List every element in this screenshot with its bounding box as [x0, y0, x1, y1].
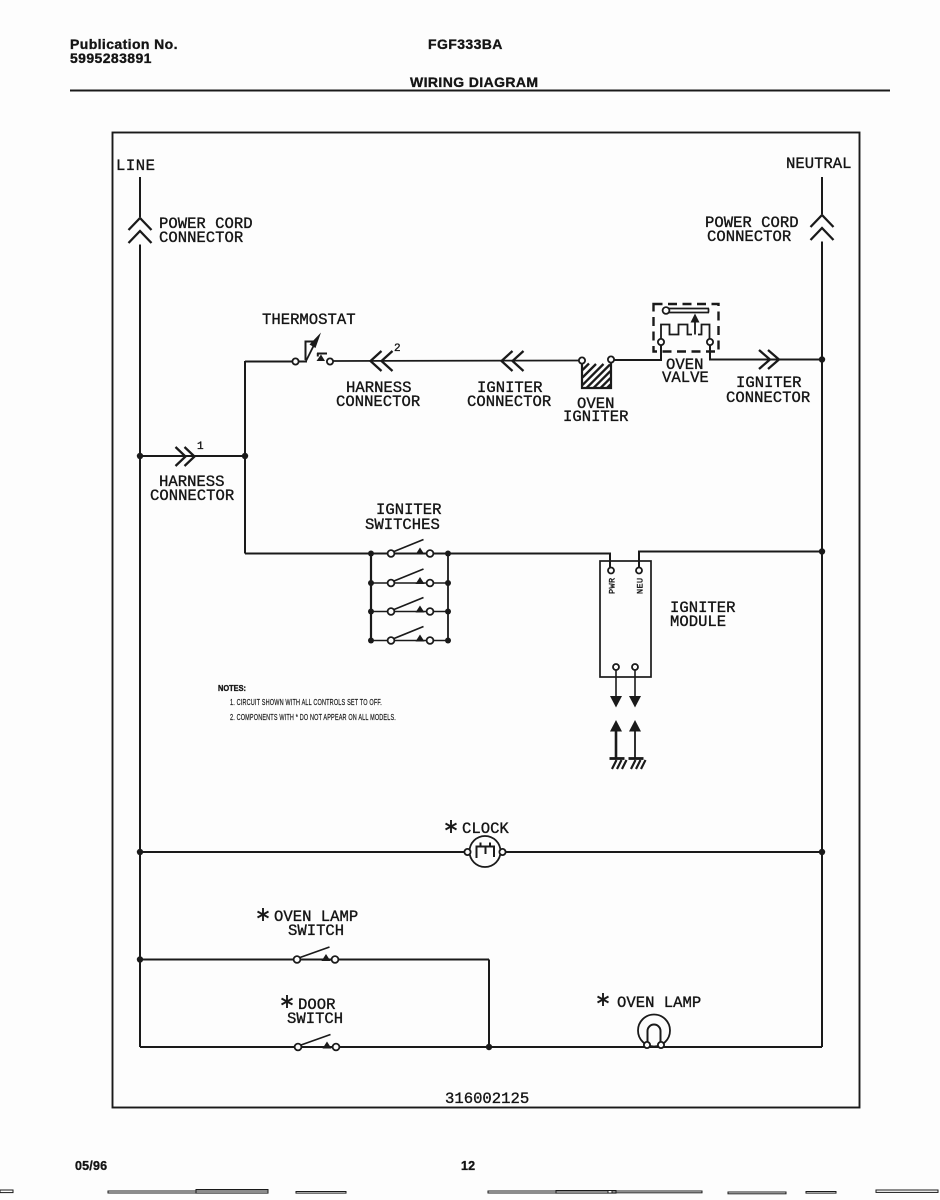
burner ground left — [610, 759, 627, 770]
wire: NEUTRAL drop to connector — [821, 177, 823, 214]
asterisk for oven lamp switch — [258, 908, 269, 921]
svg-text:NOTES:: NOTES: — [218, 684, 246, 693]
spark terminal arrow down left — [610, 696, 622, 708]
oven lamp switch SW5 — [294, 947, 339, 963]
power cord connector (left) — [129, 218, 152, 243]
label: igniter connector right — [726, 374, 810, 407]
spark terminal arrow down right — [629, 696, 641, 708]
svg-text:LINE: LINE — [116, 157, 155, 175]
junction: neutral rail / valve wire — [819, 356, 825, 362]
igniter switch SW3 — [388, 598, 434, 615]
svg-text:NEU: NEU — [636, 577, 646, 594]
svg-text:CONNECTOR: CONNECTOR — [707, 228, 791, 246]
junction: neutral rail / clock wire — [819, 849, 825, 855]
wire: switch row 2 — [371, 582, 448, 584]
wire: switch row 4 — [371, 640, 448, 642]
asterisk for clock — [446, 820, 457, 833]
clock motor M1 — [464, 836, 505, 867]
spark electrode arrow up left — [610, 720, 622, 732]
label: power cord connector right — [705, 214, 799, 246]
junctions: switch rails — [368, 551, 451, 644]
svg-text:MODULE: MODULE — [670, 613, 726, 631]
svg-text:IGNITER: IGNITER — [563, 408, 629, 426]
svg-text:THERMOSTAT: THERMOSTAT — [262, 311, 356, 329]
svg-text:1. CIRCUIT SHOWN WITH ALL CONT: 1. CIRCUIT SHOWN WITH ALL CONTROLS SET T… — [230, 697, 382, 707]
svg-text:CONNECTOR: CONNECTOR — [159, 229, 243, 247]
junction: line rail / lamp switch wire — [137, 956, 143, 962]
igniter switch SW1 — [388, 540, 434, 557]
oven lamp LP1 — [638, 1015, 670, 1049]
svg-text:SWITCH: SWITCH — [287, 1010, 343, 1028]
junction: branch node at x245 — [242, 453, 248, 459]
label: igniter module — [670, 599, 736, 631]
svg-text:12: 12 — [461, 1159, 475, 1173]
wire: oven valve to igniter connector right — [710, 345, 822, 360]
wire: main run to igniter module PWR — [245, 554, 610, 568]
svg-text:NEUTRAL: NEUTRAL — [786, 155, 852, 173]
thermostat TH1 — [292, 333, 333, 365]
svg-text:CONNECTOR: CONNECTOR — [336, 393, 420, 411]
svg-text:WIRING DIAGRAM: WIRING DIAGRAM — [410, 74, 538, 90]
svg-text:CONNECTOR: CONNECTOR — [150, 487, 234, 505]
spark electrode arrow up right — [629, 720, 641, 732]
wire: igniter to oven valve — [614, 345, 661, 360]
igniter connector symbol (left) — [502, 351, 524, 371]
wire: igniter switch right rail — [447, 554, 449, 641]
wire: electrode stem right — [634, 731, 636, 758]
svg-text:OVEN LAMP: OVEN LAMP — [617, 994, 701, 1012]
asterisk for door switch — [282, 995, 293, 1008]
igniter module U1 — [600, 561, 651, 677]
label: harness connector 2 — [336, 379, 420, 411]
svg-text:CONNECTOR: CONNECTOR — [467, 393, 551, 411]
asterisk for oven lamp — [598, 993, 609, 1006]
igniter switch SW2 — [388, 569, 434, 586]
junction: neutral rail / module wire — [819, 548, 825, 554]
wire: clock line — [140, 851, 822, 853]
svg-text:05/96: 05/96 — [75, 1159, 107, 1173]
wire: switch row 3 — [371, 611, 448, 613]
scan artifact dashes at bottom — [0, 1190, 938, 1194]
label: door switch — [287, 996, 343, 1028]
burner ground right — [629, 759, 646, 770]
wire: NEU pin to neutral rail — [639, 552, 822, 568]
label: oven lamp switch — [274, 908, 358, 940]
wire: left LINE rail vertical — [139, 245, 141, 1048]
oven valve (dashed enclosure) — [654, 304, 719, 352]
wire: thermostat to oven igniter — [333, 360, 579, 363]
svg-text:VALVE: VALVE — [662, 369, 709, 387]
label: igniter connector left — [467, 379, 551, 411]
svg-text:SWITCHES: SWITCHES — [365, 516, 440, 534]
wire: harness connector 1 feed — [140, 455, 245, 457]
svg-text:1: 1 — [197, 441, 204, 453]
svg-text:FGF333BA: FGF333BA — [428, 36, 503, 52]
wire: igniter switch left rail — [370, 554, 372, 641]
svg-text:2. COMPONENTS WITH * DO NOT AP: 2. COMPONENTS WITH * DO NOT APPEAR ON AL… — [230, 712, 396, 722]
wire: oven lamp switch line — [140, 959, 489, 961]
label: power cord connector left — [159, 215, 253, 247]
label: oven igniter — [563, 395, 629, 426]
wire: right NEUTRAL rail vertical — [821, 242, 823, 1048]
svg-text:PWR: PWR — [608, 577, 618, 594]
notes block — [218, 684, 396, 722]
wire: branch vertical x245 thermostat to switches — [244, 361, 246, 554]
harness connector 2 symbol — [371, 351, 393, 371]
svg-text:5995283891: 5995283891 — [70, 50, 152, 66]
label: harness connector 1 — [150, 473, 234, 505]
wire: module spark output left — [615, 670, 617, 697]
power cord connector (right) — [811, 215, 834, 240]
igniter connector symbol (right) — [759, 350, 779, 369]
igniter switch SW4 — [388, 627, 434, 644]
wire: branch to thermostat — [245, 361, 292, 363]
wire: door switch line — [140, 1046, 822, 1048]
label: igniter switches — [365, 501, 442, 534]
door switch SW6 — [295, 1035, 340, 1051]
junction: line rail / clock wire — [137, 849, 143, 855]
header rule — [70, 90, 890, 92]
junction: line rail / harness wire — [137, 453, 143, 459]
header: publication number — [70, 36, 178, 66]
harness connector 1 symbol — [176, 447, 195, 466]
oven igniter (hatched element) — [579, 356, 614, 388]
svg-text:SWITCH: SWITCH — [288, 922, 344, 940]
junction: lamp switch drop / door switch wire — [486, 1044, 492, 1050]
wire: LINE drop to connector — [139, 177, 141, 217]
wire: electrode stem left — [615, 731, 618, 758]
svg-text:2: 2 — [394, 343, 401, 355]
wire: lamp switch drop — [488, 960, 490, 1048]
label: oven valve — [662, 356, 709, 387]
wire: module spark output right — [634, 670, 636, 697]
svg-text:316002125: 316002125 — [445, 1090, 529, 1108]
diagram border frame — [113, 133, 860, 1108]
svg-text:CONNECTOR: CONNECTOR — [726, 389, 810, 407]
